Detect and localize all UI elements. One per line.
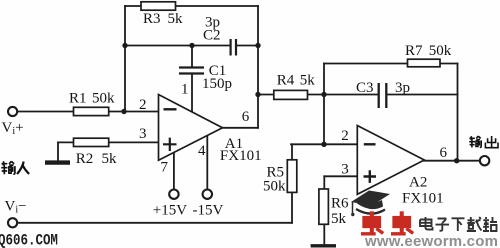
capacitor C1 plates xyxy=(179,68,204,74)
wire R7 rail xyxy=(324,63,458,65)
wire C3 row xyxy=(324,94,458,96)
svg-text:5k: 5k xyxy=(168,11,184,27)
svg-text:+15V: +15V xyxy=(153,203,187,219)
resistor R3 xyxy=(141,2,176,10)
wire R6 bottom lead to ground xyxy=(323,224,325,244)
node: R3 rail / C rail junction xyxy=(122,43,127,48)
svg-text:5k: 5k xyxy=(102,151,118,167)
resistor R5 xyxy=(287,160,297,193)
wire A1 pin 4 lead xyxy=(206,135,208,190)
label 输入 (input) xyxy=(1,161,29,174)
svg-text:R6: R6 xyxy=(331,196,349,212)
node: output junction xyxy=(454,158,459,163)
watermark 电子下载站 xyxy=(420,217,497,231)
op-amp A1 xyxy=(159,95,223,161)
wire R4 row xyxy=(258,94,324,96)
resistor R4 xyxy=(274,90,308,99)
wire left vertical (R3 rail to pin2 node) xyxy=(124,6,126,112)
svg-text:R4: R4 xyxy=(277,73,295,89)
wire Vi+ input row through R1 xyxy=(17,111,159,113)
wire Vi- long bottom row xyxy=(18,222,293,224)
resistor R1 xyxy=(74,107,109,115)
op-amp A2 xyxy=(357,126,424,195)
node: C1 top junction xyxy=(189,43,194,48)
载 xyxy=(467,217,482,231)
svg-text:Vi+: Vi+ xyxy=(2,120,24,137)
watermark graduation cap xyxy=(351,191,390,217)
svg-text:C3: C3 xyxy=(356,80,374,96)
terminal output xyxy=(480,156,489,165)
svg-text:5k: 5k xyxy=(300,73,316,89)
wire A2 output pin 6 xyxy=(424,160,480,162)
terminal +15V xyxy=(169,190,178,199)
svg-text:1: 1 xyxy=(181,82,189,98)
svg-text:FX101: FX101 xyxy=(402,191,444,207)
电 xyxy=(420,217,433,230)
node: C2 right junction xyxy=(255,43,260,48)
子 xyxy=(436,219,450,231)
capacitor C2 plates xyxy=(231,39,236,56)
resistor R7 xyxy=(408,59,441,67)
watermark 虫虫 (red) xyxy=(361,211,413,233)
wire R6 top lead xyxy=(323,176,325,189)
ground (under R2) xyxy=(45,160,70,164)
svg-text:50k: 50k xyxy=(429,43,452,59)
label 输出 (output) xyxy=(469,136,498,148)
wire R2 row to pin3 xyxy=(58,141,159,143)
wire top feedback rail xyxy=(125,5,258,7)
svg-text:150p: 150p xyxy=(202,76,232,92)
svg-text:R7: R7 xyxy=(405,43,423,59)
svg-text:-15V: -15V xyxy=(193,203,224,219)
terminal -15V xyxy=(203,190,212,199)
svg-text:R1: R1 xyxy=(69,91,87,107)
svg-text:A2: A2 xyxy=(409,175,427,191)
svg-text:Q606.COM: Q606.COM xyxy=(0,232,58,248)
wire A2 pin2 row with R5 jog xyxy=(291,143,357,145)
wire C1 bottom lead to pin 1 xyxy=(191,74,193,113)
wire right vertical (feedback to A1 output) xyxy=(257,6,259,128)
ground (under R6) xyxy=(311,244,336,247)
wire A1 pin 7 lead xyxy=(173,152,175,190)
node: A2 pin2 junction xyxy=(321,142,326,147)
wire A2 pin3 row xyxy=(324,175,357,177)
wire R5 top lead xyxy=(291,144,293,160)
wire A1 output pin 6 xyxy=(223,127,259,129)
resistor R6 xyxy=(319,189,329,224)
resistor R2 xyxy=(74,138,109,146)
node: R4/C3 junction xyxy=(321,92,326,97)
svg-text:7: 7 xyxy=(161,160,169,176)
wire right vertical (R7/C3 to output node) xyxy=(457,64,459,161)
svg-text:2: 2 xyxy=(139,97,147,113)
svg-text:3: 3 xyxy=(139,126,147,142)
svg-text:R3: R3 xyxy=(143,11,161,27)
terminal Vi- xyxy=(8,218,17,227)
svg-text:3: 3 xyxy=(341,162,349,178)
下 xyxy=(452,218,465,231)
svg-text:Vi−: Vi− xyxy=(5,198,27,215)
站 xyxy=(483,217,497,231)
svg-text:3p: 3p xyxy=(395,80,410,96)
wire R2 left lead down to ground xyxy=(57,142,59,160)
svg-text:6: 6 xyxy=(440,145,448,161)
svg-text:50k: 50k xyxy=(263,179,286,195)
wire mid vertical (R7 rail to A2 pin2 node) xyxy=(323,64,325,145)
svg-text:4: 4 xyxy=(198,143,206,159)
svg-text:www.eeworm.com: www.eeworm.com xyxy=(364,233,498,248)
svg-text:C2: C2 xyxy=(203,28,221,44)
wire middle rail (C1/C2 rail) xyxy=(125,45,258,47)
wire C1 top lead xyxy=(191,46,193,68)
terminal Vi+ xyxy=(8,107,17,116)
svg-text:5k: 5k xyxy=(331,211,347,227)
node: R1 / pin2 junction xyxy=(121,109,126,114)
svg-text:50k: 50k xyxy=(92,91,115,107)
svg-text:FX101: FX101 xyxy=(220,148,262,164)
node: R4 left junction xyxy=(255,92,260,97)
svg-text:2: 2 xyxy=(341,128,349,144)
svg-text:R2: R2 xyxy=(76,151,94,167)
wire R5 bottom lead xyxy=(291,192,293,223)
capacitor C3 plates xyxy=(379,83,387,108)
svg-text:6: 6 xyxy=(242,109,250,125)
